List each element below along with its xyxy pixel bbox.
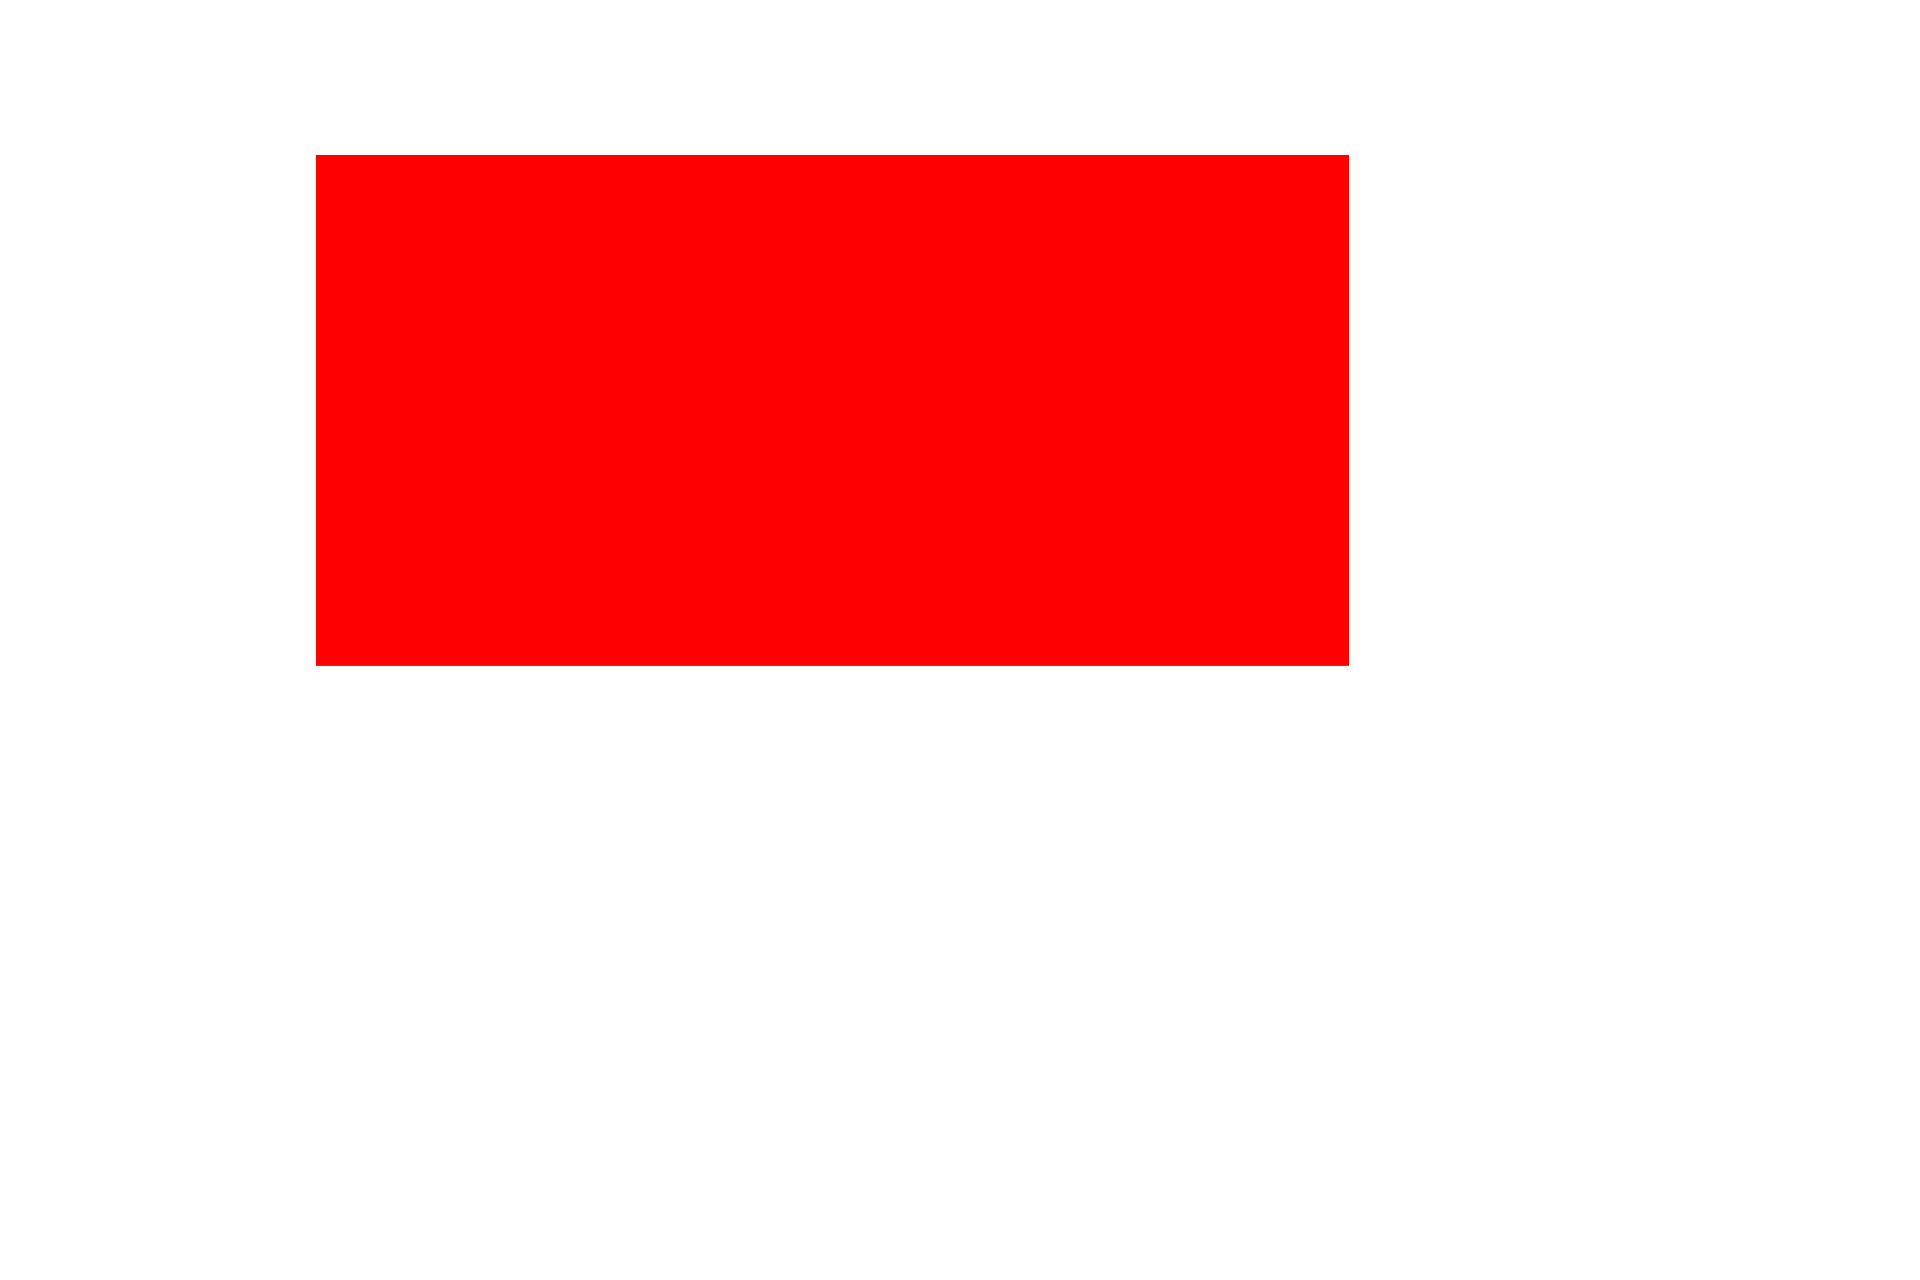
red rectangle — [316, 155, 1349, 666]
